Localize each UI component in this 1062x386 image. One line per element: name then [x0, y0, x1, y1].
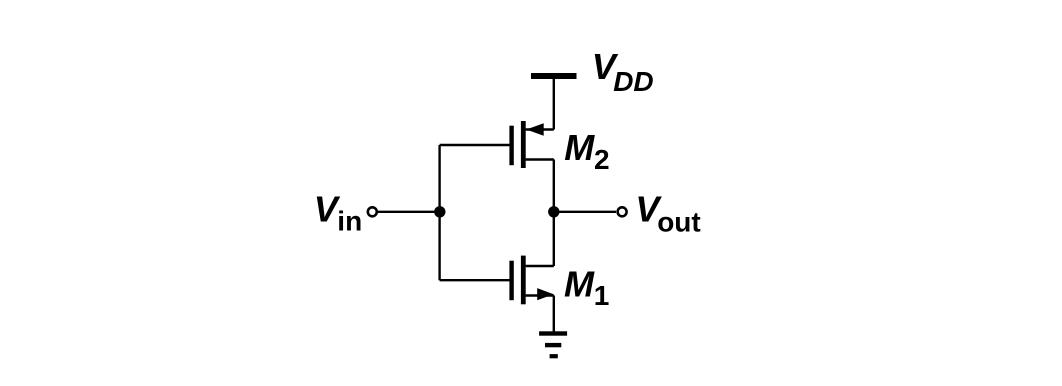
transistor M1 source arrow (NMOS)	[537, 288, 553, 300]
transistor M2 gate bar	[509, 126, 513, 166]
transistor M2 channel bar	[521, 121, 526, 168]
ground bar 1	[539, 331, 567, 335]
terminal Vout (open circle)	[618, 207, 627, 216]
wire M2 gate lead	[440, 144, 510, 146]
wire M2 drain to output node	[553, 160, 555, 212]
wire output node to M1 drain	[553, 212, 555, 266]
svg-text:M: M	[564, 264, 595, 305]
transistor M1 source lead	[526, 294, 554, 296]
junction node A (input gate node)	[434, 206, 445, 217]
ground bar 3	[550, 354, 558, 358]
transistor M1 channel bar	[521, 256, 526, 305]
terminal Vin (open circle)	[368, 207, 377, 216]
svg-text:in: in	[337, 206, 362, 237]
wire node B to Vout terminal	[554, 211, 616, 213]
transistor M1 drain lead	[526, 265, 554, 267]
VDD supply bar	[531, 73, 577, 79]
wire M1 source to ground	[553, 296, 555, 334]
wire Vin to node A	[378, 211, 440, 213]
junction node B (output node)	[548, 206, 559, 217]
wire VDD to M2 source	[553, 79, 555, 130]
transistor M2 source arrow (PMOS)	[526, 123, 544, 135]
svg-text:DD: DD	[613, 66, 653, 97]
transistor M1 gate bar	[509, 261, 513, 301]
transistor M2 drain lead	[526, 158, 554, 160]
svg-text:M: M	[564, 127, 595, 168]
svg-text:out: out	[657, 207, 701, 238]
svg-text:1: 1	[594, 280, 610, 311]
wire M1 gate lead	[440, 279, 510, 281]
wire left branch vertical	[438, 145, 440, 280]
ground bar 2	[545, 343, 561, 347]
transistor M2 source lead	[526, 128, 554, 130]
svg-text:2: 2	[594, 144, 610, 175]
